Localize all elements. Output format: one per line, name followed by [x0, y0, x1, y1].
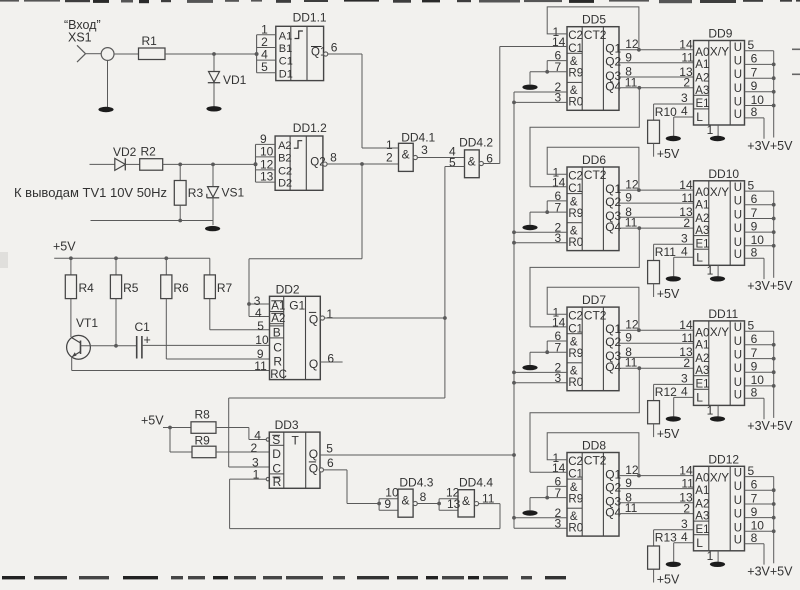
svg-text:DD2: DD2	[276, 282, 300, 296]
svg-text:A0: A0	[695, 327, 709, 339]
svg-text:DD1.2: DD1.2	[293, 121, 327, 135]
svg-text:8: 8	[751, 105, 758, 119]
svg-text:4: 4	[681, 530, 688, 544]
svg-text:R: R	[273, 355, 282, 369]
svg-text:C1: C1	[135, 320, 151, 334]
svg-text:R3: R3	[188, 186, 204, 200]
svg-text:E1: E1	[696, 238, 710, 250]
svg-text:R9: R9	[195, 434, 211, 448]
svg-text:+5V: +5V	[657, 287, 680, 301]
svg-text:U: U	[734, 363, 742, 375]
svg-text:3: 3	[555, 516, 562, 530]
svg-text:9: 9	[384, 497, 391, 511]
svg-text:7: 7	[751, 491, 758, 505]
svg-text:Q: Q	[309, 357, 318, 371]
svg-text:4: 4	[681, 244, 688, 258]
svg-text:14: 14	[679, 178, 693, 192]
svg-text:E1: E1	[696, 524, 710, 536]
svg-text:2: 2	[683, 356, 690, 370]
svg-text:U: U	[734, 83, 742, 95]
svg-text:U: U	[734, 377, 742, 389]
svg-text:5: 5	[748, 38, 755, 52]
svg-text:6: 6	[327, 352, 334, 366]
svg-text:A0: A0	[695, 47, 709, 59]
svg-text:DD9: DD9	[708, 27, 732, 41]
svg-text:+3V+5V: +3V+5V	[747, 565, 793, 579]
svg-text:3: 3	[681, 91, 688, 105]
svg-text:C2: C2	[278, 166, 292, 178]
svg-text:11: 11	[254, 359, 267, 373]
svg-text:U: U	[734, 182, 742, 194]
svg-text:&: &	[402, 494, 410, 508]
svg-text:C2: C2	[568, 30, 583, 42]
svg-text:7: 7	[751, 66, 758, 80]
svg-text:R11: R11	[655, 245, 676, 259]
svg-text:A1: A1	[695, 199, 709, 211]
svg-text:1: 1	[707, 263, 714, 277]
svg-text:6: 6	[751, 478, 758, 492]
svg-text:R9: R9	[568, 493, 583, 505]
svg-text:U: U	[734, 210, 742, 222]
svg-text:11: 11	[625, 75, 638, 89]
svg-text:A2: A2	[278, 140, 291, 152]
svg-text:R1: R1	[142, 34, 158, 48]
svg-text:11: 11	[625, 356, 638, 370]
svg-text:4: 4	[681, 104, 688, 118]
svg-text:+3V+5V: +3V+5V	[747, 279, 793, 293]
svg-text:9: 9	[625, 476, 632, 490]
svg-text:+5V: +5V	[657, 147, 680, 161]
svg-text:XS1: XS1	[68, 31, 92, 45]
svg-text:VS1: VS1	[222, 186, 245, 200]
svg-text:Q1: Q1	[605, 42, 621, 56]
svg-text:C1: C1	[279, 56, 293, 68]
svg-text:B1: B1	[279, 43, 292, 55]
svg-text:U: U	[734, 223, 742, 235]
svg-text:U: U	[734, 481, 742, 493]
svg-text:Q1: Q1	[605, 467, 621, 481]
svg-text:3: 3	[681, 232, 688, 246]
svg-text:U: U	[734, 55, 742, 67]
svg-text:12: 12	[625, 37, 639, 51]
svg-text:7: 7	[751, 346, 758, 360]
svg-text:C2: C2	[568, 456, 583, 468]
svg-text:8: 8	[751, 246, 758, 260]
svg-text:DD11: DD11	[708, 307, 738, 321]
svg-text:4: 4	[255, 306, 262, 320]
svg-text:RC: RC	[270, 369, 287, 381]
svg-text:11: 11	[625, 216, 638, 230]
svg-text:X/Y: X/Y	[710, 325, 729, 339]
svg-text:U: U	[734, 350, 742, 362]
svg-text:Q2: Q2	[605, 335, 621, 349]
svg-text:U: U	[734, 109, 742, 121]
svg-text:C1: C1	[568, 323, 583, 335]
svg-text:Q4: Q4	[605, 505, 621, 519]
svg-text:C2: C2	[568, 311, 583, 323]
svg-text:&: &	[462, 494, 470, 508]
svg-text:A0: A0	[695, 187, 709, 199]
svg-text:U: U	[734, 249, 742, 261]
svg-text:C: C	[272, 461, 281, 475]
svg-text:DD4.4: DD4.4	[459, 476, 493, 490]
svg-text:&: &	[570, 482, 578, 494]
svg-text:CT2: CT2	[584, 308, 607, 322]
svg-text:DD4.3: DD4.3	[399, 476, 433, 490]
svg-text:R9: R9	[568, 348, 583, 360]
svg-text:8: 8	[420, 490, 427, 504]
svg-text:VD1: VD1	[223, 73, 247, 87]
svg-text:3: 3	[681, 517, 688, 531]
svg-text:6: 6	[327, 456, 334, 470]
svg-text:3: 3	[421, 143, 428, 157]
svg-text:CT2: CT2	[584, 168, 607, 182]
svg-text:7: 7	[751, 206, 758, 220]
svg-text:12: 12	[625, 463, 639, 477]
svg-text:&: &	[570, 85, 578, 97]
svg-text:6: 6	[751, 332, 758, 346]
svg-text:2: 2	[251, 441, 258, 455]
svg-text:9: 9	[625, 50, 632, 64]
svg-text:D: D	[272, 447, 281, 461]
svg-text:2: 2	[683, 501, 690, 515]
svg-text:DD12: DD12	[708, 453, 739, 467]
svg-text:A2: A2	[695, 353, 709, 365]
svg-text:U: U	[734, 522, 742, 534]
svg-text:DD7: DD7	[582, 293, 606, 307]
svg-text:A2: A2	[695, 498, 709, 510]
svg-text:+5V: +5V	[657, 427, 680, 441]
svg-text:5: 5	[748, 464, 755, 478]
svg-text:X/Y: X/Y	[710, 470, 729, 484]
svg-text:T: T	[292, 434, 300, 448]
svg-text:E1: E1	[696, 98, 710, 110]
svg-text:12: 12	[625, 177, 639, 191]
svg-text:Q2: Q2	[605, 195, 621, 209]
svg-text:R8: R8	[195, 408, 211, 422]
svg-text:11: 11	[681, 476, 694, 490]
svg-text:+5V: +5V	[657, 573, 680, 587]
svg-text:A0: A0	[695, 473, 709, 485]
svg-text:DD10: DD10	[708, 167, 739, 181]
svg-text:11: 11	[681, 51, 694, 65]
svg-text:2: 2	[683, 216, 690, 230]
svg-text:8: 8	[751, 531, 758, 545]
svg-text:5: 5	[257, 319, 264, 333]
svg-text:12: 12	[625, 318, 639, 332]
svg-text:3: 3	[681, 372, 688, 386]
svg-text:L: L	[696, 536, 703, 550]
svg-text:1: 1	[253, 467, 260, 481]
svg-text:U: U	[734, 196, 742, 208]
svg-text:R9: R9	[568, 208, 583, 220]
svg-text:DD8: DD8	[582, 438, 606, 452]
svg-text:X/Y: X/Y	[710, 45, 729, 59]
svg-text:5: 5	[261, 60, 268, 74]
svg-text:9: 9	[751, 79, 758, 93]
svg-text:U: U	[734, 42, 742, 54]
svg-text:A2: A2	[695, 213, 709, 225]
svg-text:U: U	[734, 322, 742, 334]
svg-text:13: 13	[260, 170, 274, 184]
svg-text:R0: R0	[568, 97, 583, 109]
svg-text:C1: C1	[568, 43, 583, 55]
svg-text:&: &	[402, 148, 410, 162]
svg-text:1: 1	[326, 307, 333, 321]
svg-text:C: C	[273, 340, 282, 354]
svg-text:U: U	[734, 69, 742, 81]
svg-text:U: U	[734, 468, 742, 480]
svg-text:&: &	[570, 197, 578, 209]
svg-text:A1: A1	[271, 301, 285, 313]
svg-text:R0: R0	[568, 523, 583, 535]
svg-text:14: 14	[679, 318, 693, 332]
svg-text:Q: Q	[309, 447, 318, 461]
svg-text:5: 5	[748, 319, 755, 333]
svg-text:&: &	[570, 337, 578, 349]
svg-text:G1: G1	[289, 299, 305, 313]
svg-text:1: 1	[707, 123, 714, 137]
svg-text:A3: A3	[695, 365, 709, 377]
svg-text:CT2: CT2	[584, 454, 607, 468]
svg-text:D2: D2	[278, 178, 292, 190]
svg-text:R7: R7	[217, 281, 233, 295]
svg-text:2: 2	[683, 76, 690, 90]
svg-text:2: 2	[386, 151, 393, 165]
svg-text:9: 9	[751, 505, 758, 519]
svg-text:14: 14	[679, 38, 693, 52]
svg-text:+5V: +5V	[141, 414, 164, 428]
svg-text:14: 14	[679, 463, 693, 477]
svg-text:9: 9	[625, 331, 632, 345]
svg-text:U: U	[734, 535, 742, 547]
svg-text:A1: A1	[279, 30, 292, 42]
svg-text:R9: R9	[568, 68, 583, 80]
svg-text:5: 5	[748, 178, 755, 192]
svg-text:A3: A3	[695, 85, 709, 97]
svg-text:L: L	[696, 250, 703, 264]
svg-text:6: 6	[751, 192, 758, 206]
svg-text:Q: Q	[309, 461, 318, 475]
svg-text:9: 9	[751, 360, 758, 374]
svg-text:5: 5	[326, 442, 333, 456]
svg-text:U: U	[734, 336, 742, 348]
svg-text:A1: A1	[695, 59, 709, 71]
svg-text:8: 8	[751, 386, 758, 400]
svg-text:X/Y: X/Y	[710, 185, 729, 199]
svg-text:&: &	[570, 366, 578, 378]
svg-text:R6: R6	[173, 281, 189, 295]
svg-text:DD5: DD5	[582, 13, 606, 27]
svg-text:Q2: Q2	[605, 480, 621, 494]
svg-text:&: &	[570, 226, 578, 238]
svg-text:+5V: +5V	[53, 240, 76, 254]
svg-text:C1: C1	[568, 183, 583, 195]
svg-text:DD1.1: DD1.1	[293, 11, 327, 25]
svg-text:Q1: Q1	[605, 322, 621, 336]
svg-text:A1: A1	[695, 485, 709, 497]
svg-text:CT2: CT2	[584, 28, 607, 42]
svg-text:6: 6	[751, 52, 758, 66]
svg-text:VD2: VD2	[113, 145, 137, 159]
svg-text:E1: E1	[696, 379, 710, 391]
svg-text:U: U	[734, 237, 742, 249]
svg-text:U: U	[734, 495, 742, 507]
svg-text:R0: R0	[568, 377, 583, 389]
svg-text:A3: A3	[695, 225, 709, 237]
svg-text:11: 11	[681, 331, 694, 345]
svg-text:6: 6	[331, 41, 338, 55]
svg-text:A2: A2	[695, 73, 709, 85]
svg-text:B: B	[273, 325, 281, 339]
svg-text:DD4.1: DD4.1	[401, 130, 435, 144]
svg-text:A3: A3	[695, 511, 709, 523]
svg-text:8: 8	[330, 151, 337, 165]
svg-text:VT1: VT1	[76, 316, 98, 330]
svg-text:Q4: Q4	[605, 80, 621, 94]
svg-text:4: 4	[681, 385, 688, 399]
svg-text:9: 9	[625, 191, 632, 205]
svg-text:Q4: Q4	[605, 360, 621, 374]
svg-text:10: 10	[255, 333, 269, 347]
svg-text:&: &	[468, 154, 476, 168]
svg-text:A1: A1	[695, 340, 709, 352]
svg-text:Q1: Q1	[605, 182, 621, 196]
svg-text:11: 11	[625, 501, 638, 515]
svg-text:C1: C1	[568, 469, 583, 481]
svg-text:DD6: DD6	[582, 153, 606, 167]
svg-text:1: 1	[707, 403, 714, 417]
svg-text:L: L	[696, 110, 703, 124]
svg-text:К выводам TV1 10V 50Hz: К выводам TV1 10V 50Hz	[14, 185, 167, 200]
svg-text:11: 11	[681, 191, 694, 205]
svg-text:+3V+5V: +3V+5V	[747, 139, 793, 153]
svg-text:+3V+5V: +3V+5V	[747, 419, 793, 433]
svg-text:1: 1	[707, 549, 714, 563]
svg-text:B2: B2	[278, 153, 291, 165]
svg-text:R5: R5	[123, 281, 139, 295]
svg-text:U: U	[734, 97, 742, 109]
svg-text:5: 5	[449, 156, 456, 170]
svg-text:U: U	[734, 509, 742, 521]
svg-text:R2: R2	[141, 145, 157, 159]
svg-text:Q: Q	[309, 312, 318, 326]
svg-text:Q4: Q4	[605, 220, 621, 234]
svg-text:&: &	[570, 56, 578, 68]
svg-text:R0: R0	[568, 237, 583, 249]
svg-text:Q2: Q2	[605, 55, 621, 69]
svg-text:DD4.2: DD4.2	[459, 135, 493, 149]
svg-text:DD3: DD3	[275, 418, 299, 432]
svg-text:R4: R4	[79, 281, 95, 295]
svg-text:L: L	[696, 390, 703, 404]
svg-text:C2: C2	[568, 171, 583, 183]
svg-text:U: U	[734, 389, 742, 401]
svg-text:9: 9	[751, 219, 758, 233]
svg-text:10: 10	[260, 144, 274, 158]
svg-text:A2: A2	[271, 313, 285, 325]
svg-text:D1: D1	[279, 68, 293, 80]
svg-text:&: &	[570, 511, 578, 523]
